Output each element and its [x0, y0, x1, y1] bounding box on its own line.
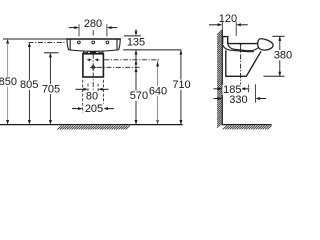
svg-text:710: 710 [172, 79, 190, 91]
svg-text:850: 850 [0, 76, 17, 88]
svg-text:380: 380 [274, 50, 292, 62]
svg-text:135: 135 [127, 36, 145, 48]
svg-text:805: 805 [20, 79, 38, 91]
svg-text:330: 330 [229, 94, 247, 106]
svg-text:570: 570 [130, 90, 148, 102]
svg-text:705: 705 [42, 83, 60, 95]
svg-text:120: 120 [219, 13, 237, 25]
svg-text:205: 205 [85, 103, 103, 115]
svg-text:80: 80 [86, 90, 98, 102]
svg-text:640: 640 [149, 86, 167, 98]
svg-text:280: 280 [84, 18, 102, 30]
